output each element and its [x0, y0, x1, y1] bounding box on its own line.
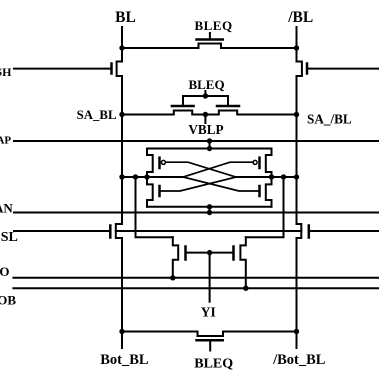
svg-text:SA_BL: SA_BL — [77, 108, 117, 122]
svg-text:BLEQ: BLEQ — [188, 77, 224, 92]
svg-text:IOB: IOB — [0, 293, 16, 308]
svg-text:BL: BL — [115, 9, 136, 26]
svg-text:/Bot_BL: /Bot_BL — [272, 352, 326, 368]
svg-text:/BL: /BL — [287, 9, 313, 26]
svg-text:IO: IO — [0, 264, 10, 279]
svg-text:SSH: SSH — [0, 65, 12, 79]
svg-text:SAN: SAN — [0, 200, 13, 215]
svg-text:BLEQ: BLEQ — [194, 18, 232, 33]
svg-text:YI: YI — [201, 304, 216, 319]
svg-text:BLEQ: BLEQ — [194, 356, 233, 371]
svg-text:Bot_BL: Bot_BL — [100, 352, 149, 368]
svg-text:CSL: CSL — [0, 230, 18, 245]
svg-text:SA_/BL: SA_/BL — [307, 112, 352, 127]
svg-text:SAP: SAP — [0, 135, 11, 147]
svg-text:VBLP: VBLP — [188, 122, 223, 137]
